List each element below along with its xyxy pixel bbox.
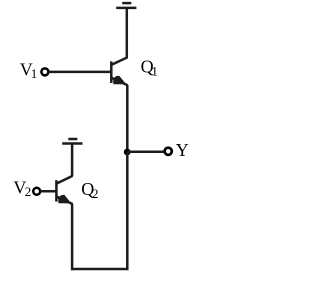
wire: V1 terminal to Q1 base bbox=[49, 71, 112, 74]
wire: Q2 emitter down to bottom wire bbox=[71, 204, 74, 270]
power rail symbol (supply for Q2 collector) bbox=[62, 139, 82, 144]
transistor Q1 bbox=[111, 57, 127, 85]
wire: Q1 emitter down to node Y bbox=[126, 85, 129, 152]
terminal V1 bbox=[41, 68, 48, 75]
svg-text:Y: Y bbox=[176, 140, 189, 160]
wire: node Y to output terminal bbox=[127, 151, 163, 154]
wire: bottom wire joining Q1 and Q2 emitters bbox=[71, 268, 128, 271]
wire: node Y down to bottom wire bbox=[126, 152, 129, 270]
terminal V2 bbox=[33, 188, 40, 195]
transistor Q2 bbox=[56, 176, 72, 204]
wire: V2 terminal to Q2 base bbox=[40, 190, 56, 193]
node Y junction dot bbox=[124, 149, 131, 156]
wire: top rail to Q1 collector bbox=[126, 9, 129, 58]
power rail symbol (top supply for Q1 collector) bbox=[116, 3, 136, 8]
wire: rail to Q2 collector bbox=[71, 144, 74, 176]
terminal Y bbox=[165, 148, 172, 155]
